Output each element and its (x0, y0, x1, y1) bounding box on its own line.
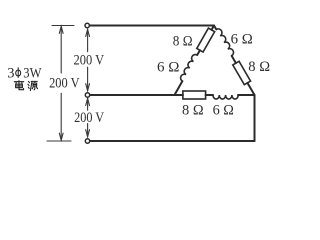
dimension line outer 200V shaft upper (60, 27, 62, 73)
inductor 6-ohm bottom branch (bumps down) (213, 95, 238, 99)
wire delta right branch middle stub (232, 56, 236, 63)
arrowhead upper-dim down (86, 84, 90, 91)
wire delta right branch lower stub (247, 83, 254, 95)
wire delta right branch upper stub (214, 26, 216, 30)
resistor 8-ohm left branch (tilted box) (197, 28, 215, 52)
arrowhead lower-dim down (86, 130, 90, 137)
kanji GEN (source) (28, 81, 38, 90)
node terminal bottom (85, 139, 89, 143)
svg-text:3W: 3W (23, 65, 41, 81)
wire delta left branch middle stub (197, 50, 200, 55)
dimension line upper 200V shaft b (87, 67, 89, 90)
wire bottom phase line (90, 140, 255, 142)
svg-text:6 Ω: 6 Ω (213, 102, 235, 118)
dimension line lower 200V shaft b (87, 124, 89, 137)
phi symbol of 3phi3W (16, 67, 21, 78)
wire coil-to-right-vertex segment (238, 94, 255, 96)
tick bar bottom reference (47, 140, 71, 142)
svg-text:6 Ω: 6 Ω (231, 32, 253, 48)
tick bar top reference (52, 25, 74, 27)
svg-text:6 Ω: 6 Ω (157, 60, 180, 76)
dimension line upper 200V shaft a (87, 30, 89, 52)
arrowhead lower-dim up (86, 98, 90, 105)
dimension line outer 200V shaft lower (60, 93, 62, 139)
wire delta left branch upper stub (212, 26, 214, 30)
wire right vertical riser (254, 95, 256, 141)
arrowhead outer up (59, 26, 63, 33)
arrowhead outer down (59, 133, 63, 140)
arrowhead upper-dim up (86, 29, 90, 36)
node terminal middle (85, 93, 89, 97)
resistor 8-ohm right branch (tilted box) (233, 61, 251, 84)
wire middle phase line (90, 94, 183, 96)
svg-text:8 Ω: 8 Ω (248, 59, 270, 75)
kanji DEN (electric) (14, 81, 23, 90)
wire middle-to-coil segment (206, 94, 213, 96)
wire top phase line (90, 25, 214, 27)
svg-text:200 V: 200 V (74, 110, 104, 126)
svg-text:8 Ω: 8 Ω (173, 34, 193, 50)
svg-text:3: 3 (7, 65, 14, 81)
dimension line lower 200V shaft a (87, 99, 89, 111)
inductor 6-ohm left branch (bumps up-left) (181, 55, 198, 82)
svg-text:200 V: 200 V (74, 52, 105, 68)
svg-text:8 Ω: 8 Ω (182, 102, 204, 118)
inductor 6-ohm right branch (bumps up-right) (216, 29, 233, 56)
resistor 8-ohm bottom branch (box) (183, 91, 206, 99)
svg-text:200 V: 200 V (49, 76, 80, 92)
wire delta left branch lower stub (175, 81, 183, 95)
node terminal top (85, 23, 89, 27)
